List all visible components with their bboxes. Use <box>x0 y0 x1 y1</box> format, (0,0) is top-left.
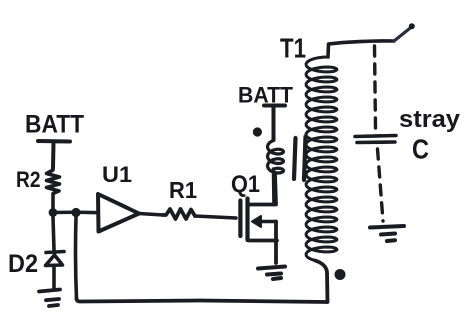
power rail symbol BATT primary <box>264 106 285 141</box>
power rail symbol BATT left <box>38 141 70 168</box>
transistor Q1 source lead <box>249 222 277 264</box>
primary phase dot <box>253 127 262 136</box>
ground (below D2) <box>39 290 60 307</box>
ground (stray C) <box>370 226 404 241</box>
wire junction to U1 input <box>53 210 98 214</box>
node A (R2/D2 junction) <box>49 208 58 217</box>
svg-text:R2: R2 <box>16 167 41 192</box>
capacitor stray C <box>355 136 396 143</box>
output electrode diagonal <box>394 27 412 41</box>
diode D2 <box>46 217 65 288</box>
svg-text:Q1: Q1 <box>231 171 260 198</box>
op-amp buffer U1 <box>98 194 139 232</box>
wire primary bottom to drain <box>272 169 276 205</box>
wire R1 to Q1 gate <box>195 216 236 218</box>
svg-text:C: C <box>412 134 429 165</box>
ground (below Q1) <box>258 267 285 280</box>
svg-text:U1: U1 <box>102 162 132 187</box>
wire node B down to bottom rail <box>74 217 79 299</box>
transformer core lines <box>294 137 306 181</box>
svg-text:BATT: BATT <box>25 111 84 139</box>
wire bottom rail <box>77 299 328 302</box>
transistor Q1 drain lead <box>249 174 276 205</box>
wire secondary bottom to rail <box>315 261 328 303</box>
transistor Q1 gate bar <box>238 201 242 237</box>
transistor Q1 channel bar <box>245 199 249 241</box>
stray capacitance dashed lead upper <box>375 46 376 128</box>
svg-text:T1: T1 <box>280 33 306 64</box>
svg-text:stray: stray <box>399 106 461 133</box>
svg-text:D2: D2 <box>8 250 38 278</box>
svg-text:R1: R1 <box>169 177 197 203</box>
secondary phase dot <box>335 269 346 280</box>
wire secondary top to output <box>328 41 394 57</box>
transistor Q1 body arrow <box>254 220 276 224</box>
node B (feedback tap) <box>71 208 80 217</box>
resistor R2 <box>47 168 60 211</box>
wire U1 output to R1 <box>139 214 163 216</box>
stray capacitance dashed lead lower <box>378 149 384 221</box>
resistor R1 <box>163 209 195 219</box>
inductor T1 primary winding <box>268 141 284 174</box>
inductor T1 secondary winding <box>306 57 337 261</box>
